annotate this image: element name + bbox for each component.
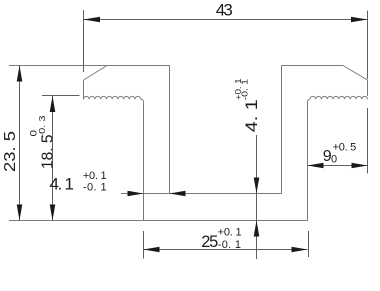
dim 25 right extension line xyxy=(308,231,310,257)
arrowhead 43 right xyxy=(351,17,368,23)
dim 9 right extension line xyxy=(367,108,369,174)
dim 9 dimension line xyxy=(308,165,368,167)
svg-text:18. 5: 18. 5 xyxy=(39,135,56,170)
svg-text:43: 43 xyxy=(216,1,233,20)
profile left wall outer face xyxy=(143,102,145,221)
arrowhead 25 left xyxy=(144,247,160,253)
svg-text:-0. 3: -0. 3 xyxy=(37,115,47,137)
dim 43 dimension line xyxy=(84,19,368,21)
profile left flange inner face xyxy=(169,66,171,194)
arrowhead 4.1 vertical bottom (points up) xyxy=(254,221,260,237)
profile top surface line (with left extension) xyxy=(9,65,170,67)
arrowhead 9 right xyxy=(352,163,368,169)
arrowhead 9 left xyxy=(308,163,324,169)
dim 18.5 dimension line xyxy=(52,96,54,221)
svg-text:4. 1: 4. 1 xyxy=(50,175,75,194)
svg-text:+0. 5: +0. 5 xyxy=(333,141,357,153)
profile left outer face xyxy=(83,80,85,99)
svg-text:+0. 1: +0. 1 xyxy=(218,226,242,238)
svg-text:25: 25 xyxy=(201,233,218,251)
arrowhead 4.1 vertical top (points down) xyxy=(254,178,260,194)
profile right inner fillet xyxy=(308,99,311,102)
arrowhead 18.5 bottom xyxy=(50,205,56,221)
profile left serrated clamp surface xyxy=(84,96,141,99)
profile right flange inner face xyxy=(281,66,283,194)
profile left inner fillet xyxy=(141,99,144,102)
arrowhead 25 right xyxy=(292,247,308,253)
dim 25 left extension line xyxy=(143,231,145,259)
arrowhead 23.5 bottom xyxy=(17,205,23,221)
svg-text:0: 0 xyxy=(331,154,337,166)
svg-text:-0. 1: -0. 1 xyxy=(240,78,249,100)
dim 18.5 extension line xyxy=(42,95,80,97)
svg-text:-0. 1: -0. 1 xyxy=(83,182,107,194)
svg-text:-0. 1: -0. 1 xyxy=(218,239,241,251)
arrowhead 23.5 top xyxy=(17,66,23,82)
svg-text:23. 5: 23. 5 xyxy=(2,131,19,172)
arrowhead 18.5 top xyxy=(50,96,56,112)
profile right outer face xyxy=(367,80,369,96)
dim 4.1 vertical dimension line xyxy=(256,135,258,259)
profile bottom line (with left extension) xyxy=(9,220,308,222)
profile left chamfer xyxy=(84,66,108,81)
profile right flange top xyxy=(282,65,344,67)
arrowhead 43 left xyxy=(84,17,101,23)
dim 43 left extension line xyxy=(83,10,85,72)
dim 25 dimension line xyxy=(144,249,308,251)
profile right wall outer face xyxy=(307,102,309,221)
profile right chamfer xyxy=(343,66,368,81)
profile right serrated clamp surface xyxy=(310,96,368,99)
svg-text:4. 1: 4. 1 xyxy=(243,99,261,132)
svg-text:+0. 1: +0. 1 xyxy=(83,170,107,182)
arrowhead 4.1 horizontal left (points right) xyxy=(128,191,144,197)
arrowhead 4.1 horizontal right (points left) xyxy=(170,191,186,197)
profile web top line (merged with 4.1 dim line) xyxy=(121,193,282,195)
dim 23.5 dimension line xyxy=(19,66,21,221)
dim 43 right extension line xyxy=(367,11,369,80)
